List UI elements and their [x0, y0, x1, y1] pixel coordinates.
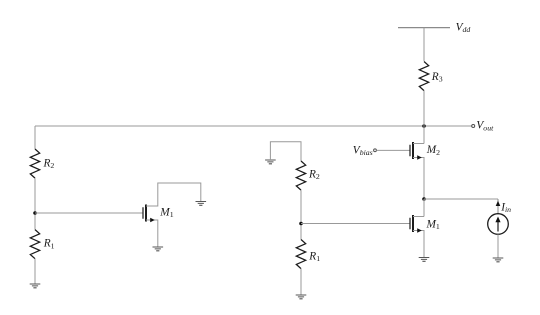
svg-text:M1: M1 — [426, 218, 440, 231]
transistor M1 (left) channel bar — [145, 205, 147, 222]
svg-text:R2: R2 — [43, 157, 55, 170]
svg-text:R1: R1 — [308, 250, 320, 263]
resistor R2 (middle divider) — [296, 161, 305, 190]
wire: middle branch top L to R2 — [270, 142, 301, 161]
transistor M2 channel bar — [412, 142, 414, 159]
svg-text:Vout: Vout — [476, 120, 494, 133]
wire: M1 (right) drain horizontal — [413, 216, 424, 218]
node: Vout junction dot — [422, 124, 426, 128]
M2 source arrow — [417, 155, 422, 160]
wire: current source to ground — [497, 234, 499, 258]
wire: middle gate wire to M1 (right) — [301, 223, 410, 225]
wire: left divider bottom vertical — [34, 259, 36, 284]
svg-text:Vdd: Vdd — [456, 21, 471, 34]
resistor R3 — [419, 62, 428, 91]
node Vout terminal circle — [472, 125, 475, 128]
current source Iin circle — [488, 214, 509, 235]
wire: R3 to Vout node and M2 drain — [423, 91, 425, 144]
wire: Vbias to M2 gate — [376, 149, 410, 151]
wire: M1 (left) source down — [146, 220, 158, 247]
wire: M1 (left) drain up and over to ground — [146, 183, 201, 206]
svg-text:Vbias: Vbias — [353, 144, 373, 157]
wire: M2 source down to cascode node — [413, 158, 424, 200]
current source internal arrow — [497, 222, 499, 232]
wire: M1 (right) source down — [413, 231, 424, 258]
node: left divider tap dot — [33, 211, 37, 215]
transistor M1 (left) gate bar — [142, 207, 144, 219]
ground: middle branch top — [265, 160, 276, 164]
svg-text:M2: M2 — [426, 144, 440, 157]
ground: left divider — [30, 284, 41, 288]
svg-text:R3: R3 — [431, 71, 443, 84]
wire: left divider middle vertical — [34, 178, 36, 230]
ground: M1 (left) source — [153, 247, 164, 251]
node: middle divider tap dot — [299, 222, 303, 226]
Vdd supply bar — [398, 27, 450, 29]
svg-text:R2: R2 — [308, 169, 320, 182]
wire: middle divider middle vertical — [300, 190, 302, 239]
wire: middle divider bottom vertical — [300, 269, 302, 295]
M1 (left) source arrow — [150, 218, 155, 223]
wire: M2 drain horizontal — [413, 143, 424, 145]
node: cascode junction dot — [422, 197, 426, 201]
ground: M1 (right) source — [419, 258, 430, 262]
svg-text:R1: R1 — [43, 238, 55, 251]
wire: long horizontal rail from left divider to Vout node — [35, 125, 472, 127]
resistor R2 (left divider) — [30, 149, 39, 178]
M1 (right) source arrow — [417, 228, 422, 233]
resistor R1 (middle divider) — [296, 240, 305, 269]
transistor M1 (right) gate bar — [409, 218, 411, 230]
wire: Vdd to R3 — [423, 28, 425, 61]
ground: middle divider — [296, 295, 307, 299]
ground: M1 (left) drain — [196, 202, 207, 206]
resistor R1 (left divider) — [30, 230, 39, 259]
transistor M2 gate bar — [409, 145, 411, 157]
transistor M1 (right) channel bar — [412, 215, 414, 232]
ground: current source — [493, 258, 504, 262]
wire: M1 (right) drain vertical — [423, 199, 425, 217]
node: Vbias terminal circle — [374, 149, 377, 152]
svg-text:M1: M1 — [159, 206, 173, 219]
wire: left branch top vertical — [34, 126, 36, 149]
wire: left gate wire to M1 — [35, 212, 143, 214]
Iin input arrow into node — [497, 199, 499, 214]
wire: cascode node to current source — [424, 198, 498, 200]
svg-text:Iin: Iin — [500, 202, 511, 215]
